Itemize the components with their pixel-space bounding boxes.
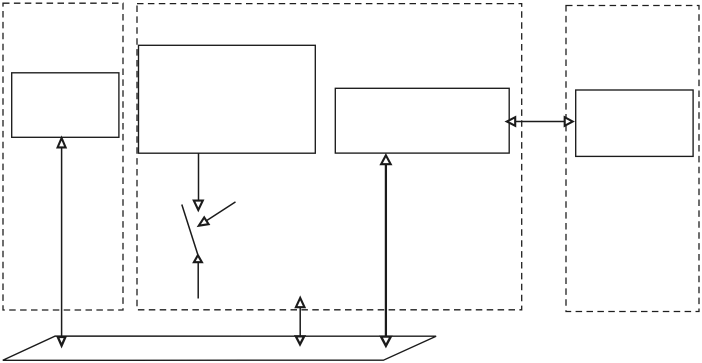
wire W1 (R2 bottom to switch top contact) [198, 153, 200, 201]
dashed enclosure D1 (left subsystem) [3, 3, 123, 310]
arrowhead A3 top (hollow, up) [296, 298, 305, 307]
bus plane (bottom parallelogram) [3, 336, 436, 360]
wire A3 (short double arrow, D2 edge to bus plane) [299, 307, 301, 338]
wire A1 (left vertical double arrow, R1 to bus plane) [61, 147, 63, 338]
block R1 (left box) [12, 73, 119, 138]
arrowhead A1 bottom (hollow, down) [58, 337, 66, 346]
switch actuation arrow (control) [206, 202, 235, 221]
arrowhead switch top contact (hollow, down) [194, 201, 203, 210]
block R2 (large middle box) [139, 45, 316, 153]
block R3 (middle-right box) [335, 88, 509, 153]
arrowhead A1 top (hollow, up) [58, 138, 66, 147]
wire A4 (thick vertical double arrow, R3 to bus plane) [385, 163, 387, 337]
arrowhead A4 bottom (hollow, down) [381, 337, 391, 346]
wire A5 (horizontal double arrow, R3 to R4) [515, 121, 566, 123]
dashed enclosure D3 (right subsystem) [566, 6, 699, 312]
block R4 (right box) [576, 90, 693, 156]
dashed enclosure D2 (middle subsystem) [137, 4, 522, 310]
arrowhead switch bottom contact (hollow, up) [194, 255, 202, 262]
switch S1 blade [182, 205, 198, 255]
arrowhead A3 bottom (hollow, down) [296, 336, 304, 344]
arrowhead A4 top (hollow, up) [381, 155, 391, 164]
arrowhead A5 left (hollow, left) [507, 117, 515, 126]
wire W2 (switch bottom contact downward) [197, 262, 199, 298]
arrowhead actuation (hollow, down-left) [199, 217, 209, 225]
arrowhead A5 right (hollow, right) [565, 117, 573, 126]
